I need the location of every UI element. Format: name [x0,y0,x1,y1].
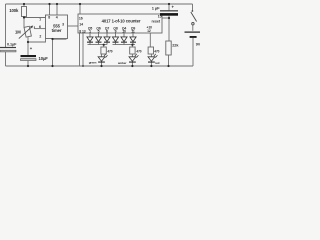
junction dots [23,3,170,67]
wire reset pin15 stub [162,17,169,19]
wire pin6 of 555 [34,28,45,30]
wire 1uF cap to 22k node [168,16,170,41]
svg-text:8: 8 [79,29,81,33]
svg-text:5: 5 [98,30,100,34]
wire switch to battery [192,25,194,31]
switch S1 [191,10,197,25]
potentiometer R2 wiper arrow [19,26,35,39]
wire 555 pin4 top [56,4,58,15]
resistor R6 22k box [166,41,171,55]
potentiometer R2 1M box [24,26,31,37]
svg-text:4: 4 [56,15,58,19]
LED amber symbol [129,54,138,63]
resistor R1 100k box [22,7,27,17]
svg-text:8: 8 [48,15,50,19]
svg-text:3: 3 [62,23,64,27]
wire left rail lower [5,52,7,66]
capacitor C3 1uF plates [160,10,178,15]
wire bus1 [88,44,107,46]
wire 470 R4 to amber LED [131,54,133,57]
svg-text:timer: timer [52,28,62,33]
svg-text:1M: 1M [15,30,21,35]
wire output stub Q6 [98,33,100,37]
svg-text:12: 12 [147,29,151,33]
svg-text:10µF: 10µF [39,56,49,61]
background [0,0,200,72]
svg-text:red: red [155,61,160,65]
svg-text:1: 1 [89,30,91,34]
wire 4017 pin13 ground [82,33,84,66]
svg-text:15: 15 [158,14,162,18]
capacitor C1 0.1uF plates [0,47,16,52]
wire battery to ground rail [192,38,194,66]
svg-text:470: 470 [107,49,112,53]
wire switch top [192,4,194,11]
svg-text:7: 7 [39,18,41,22]
wire 555 pin8 top [49,4,51,15]
wire bottom rail [6,65,194,67]
wire diode leads to bus2 [116,43,134,45]
wire 100k top lead [23,4,25,7]
wire output stub Q8 [115,33,117,37]
labels [7,5,201,66]
resistor R4 470 box [130,47,135,54]
svg-text:470: 470 [136,50,141,54]
svg-text:amber: amber [118,61,127,65]
wire top rail [6,3,193,5]
wire diode leads to bus1 [90,43,107,45]
wire 470 R5 to red LED [150,54,152,57]
wire red LED to ground [150,62,152,66]
svg-text:6: 6 [39,25,41,29]
wire pot bottom [27,37,29,43]
wire bus2 [113,44,136,46]
diode D3 [104,37,110,43]
svg-text:2: 2 [39,35,41,39]
svg-text:9V: 9V [196,43,200,47]
LED green symbol [98,54,107,63]
svg-text:100k: 100k [9,8,19,13]
wire output stub Q4 [123,33,125,37]
svg-text:6: 6 [106,30,108,34]
wire green LED to ground [101,62,103,66]
capacitor C2 10uF plates [21,55,37,61]
wire pin7 of 555 [24,15,46,18]
battery B1 plates [185,32,201,38]
wire 100k bottom to pot [23,17,25,28]
svg-text:1 µF: 1 µF [152,5,160,10]
resistor R3 470 box [101,47,106,54]
svg-text:470: 470 [154,49,159,53]
wire 22k to ground [168,55,170,66]
wire rail to 1uF cap [168,4,170,10]
wire pin2 of 555 [28,39,46,43]
wire 555 ground pin1 [53,39,67,67]
wire output stub Q7 [106,33,108,37]
diode D1 [87,37,93,43]
wire 10uF to ground rail [27,61,29,66]
wire 470 R3 to green LED [101,54,103,57]
diode D4 [112,37,118,43]
wire 4017 pin16 top [79,4,81,14]
wire left rail upper [5,4,7,47]
wire bus2 to 470 R4 [131,45,133,47]
diode D5 [121,37,127,43]
wire output stub Q5 [89,33,91,37]
resistor R5 470 box [148,47,153,54]
counter U2 4017 box [78,14,162,33]
op 555 timer U1 box [46,15,68,39]
diode D6 [130,37,136,43]
svg-text:14: 14 [79,22,83,26]
wire bus1 to 470 R3 [103,45,105,47]
svg-text:9: 9 [115,30,117,34]
wire 4017 pin8 ground [79,33,81,66]
svg-text:22k: 22k [172,44,179,48]
wire node to 10uF cap [27,42,29,55]
wire carry +10 pin12 to 470 R5 [149,33,151,47]
svg-text:10: 10 [122,30,126,34]
svg-text:11: 11 [131,30,135,34]
svg-text:4017 1-of-10 counter: 4017 1-of-10 counter [102,18,141,23]
svg-text:reset: reset [152,19,161,23]
wire output stub Q9 [132,33,134,37]
LED red symbol [148,54,157,63]
wire amber LED to ground [131,62,133,66]
svg-text:16: 16 [79,17,83,21]
wire clock 555 pin3 to 4017 pin14 [68,25,79,27]
diode D2 [95,37,101,43]
svg-text:0.1µF: 0.1µF [7,42,17,46]
svg-text:green: green [89,61,97,65]
svg-text:13: 13 [82,29,86,33]
